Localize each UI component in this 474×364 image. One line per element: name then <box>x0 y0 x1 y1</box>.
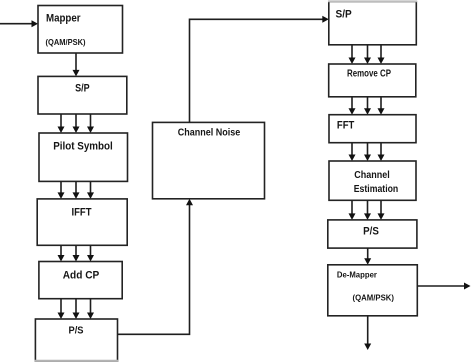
block S/P left <box>38 76 127 114</box>
block Pilot Symbol <box>39 133 128 181</box>
svg-text:Estimation: Estimation <box>354 184 399 195</box>
wire Channel Estimation to P/S line 1 <box>349 200 356 220</box>
wire FFT to Channel Estimation line 3 <box>378 143 385 161</box>
block Mapper (QAM/PSK) <box>38 6 123 54</box>
wire S/P to Remove CP line 1 <box>349 45 356 64</box>
block Channel Estimation <box>329 161 416 200</box>
svg-text:Remove CP: Remove CP <box>347 69 391 80</box>
wire De-Mapper output right arrow <box>417 283 470 290</box>
wire Channel Noise to S/P right (up then right) <box>190 16 329 123</box>
wire P/S to De-Mapper <box>364 248 371 265</box>
block P/S right <box>328 220 417 248</box>
wire Add CP to P/S line 2 <box>73 299 80 319</box>
svg-text:Mapper: Mapper <box>46 13 81 25</box>
block Channel Noise <box>153 122 265 198</box>
wire Mapper to S/P <box>73 53 80 76</box>
wire input arrow into Mapper <box>0 20 38 27</box>
wire FFT to Channel Estimation line 2 <box>364 143 371 161</box>
wire Pilot Symbol to IFFT line 1 <box>58 181 65 199</box>
svg-text:(QAM/PSK): (QAM/PSK) <box>46 37 86 47</box>
wire P/S to Channel Noise (right then up into box bottom) <box>118 199 194 334</box>
wire S/P to Pilot Symbol line 2 <box>73 114 80 133</box>
block P/S left <box>35 319 119 361</box>
wire S/P to Pilot Symbol line 1 <box>58 114 65 133</box>
wire De-Mapper output down arrow <box>364 316 371 350</box>
svg-text:Channel Noise: Channel Noise <box>178 128 241 139</box>
wire Pilot Symbol to IFFT line 3 <box>87 181 94 199</box>
block FFT <box>329 115 416 143</box>
block IFFT <box>37 199 127 245</box>
wire Pilot Symbol to IFFT line 2 <box>73 181 80 199</box>
block Remove CP <box>329 64 416 97</box>
wire IFFT to Add CP line 1 <box>58 245 65 261</box>
wire FFT to Channel Estimation line 1 <box>349 143 356 161</box>
wire S/P to Remove CP line 3 <box>378 45 385 64</box>
block Add CP <box>39 262 122 299</box>
wire S/P to Pilot Symbol line 3 <box>87 114 94 133</box>
svg-text:IFFT: IFFT <box>72 207 92 219</box>
wire S/P to Remove CP line 2 <box>364 45 371 64</box>
svg-text:S/P: S/P <box>336 9 352 21</box>
block De-Mapper (QAM/PSK) <box>328 265 418 316</box>
wire Remove CP to FFT line 1 <box>349 97 356 115</box>
svg-text:S/P: S/P <box>75 83 90 95</box>
wire IFFT to Add CP line 2 <box>73 245 80 261</box>
svg-text:Add CP: Add CP <box>63 270 100 282</box>
wire Add CP to P/S line 3 <box>87 299 94 319</box>
svg-text:P/S: P/S <box>69 326 84 337</box>
svg-text:Pilot Symbol: Pilot Symbol <box>53 141 113 153</box>
wire Remove CP to FFT line 3 <box>378 97 385 115</box>
svg-text:Channel: Channel <box>354 170 390 181</box>
wire Channel Estimation to P/S line 3 <box>378 200 385 220</box>
svg-text:P/S: P/S <box>363 226 379 238</box>
wire Remove CP to FFT line 2 <box>364 97 371 115</box>
wire Channel Estimation to P/S line 2 <box>364 200 371 220</box>
block S/P right <box>328 1 417 45</box>
svg-text:FFT: FFT <box>337 120 355 132</box>
wire IFFT to Add CP line 3 <box>87 245 94 261</box>
svg-text:De-Mapper: De-Mapper <box>337 270 378 280</box>
svg-text:(QAM/PSK): (QAM/PSK) <box>353 293 395 303</box>
wire Add CP to P/S line 1 <box>58 299 65 319</box>
